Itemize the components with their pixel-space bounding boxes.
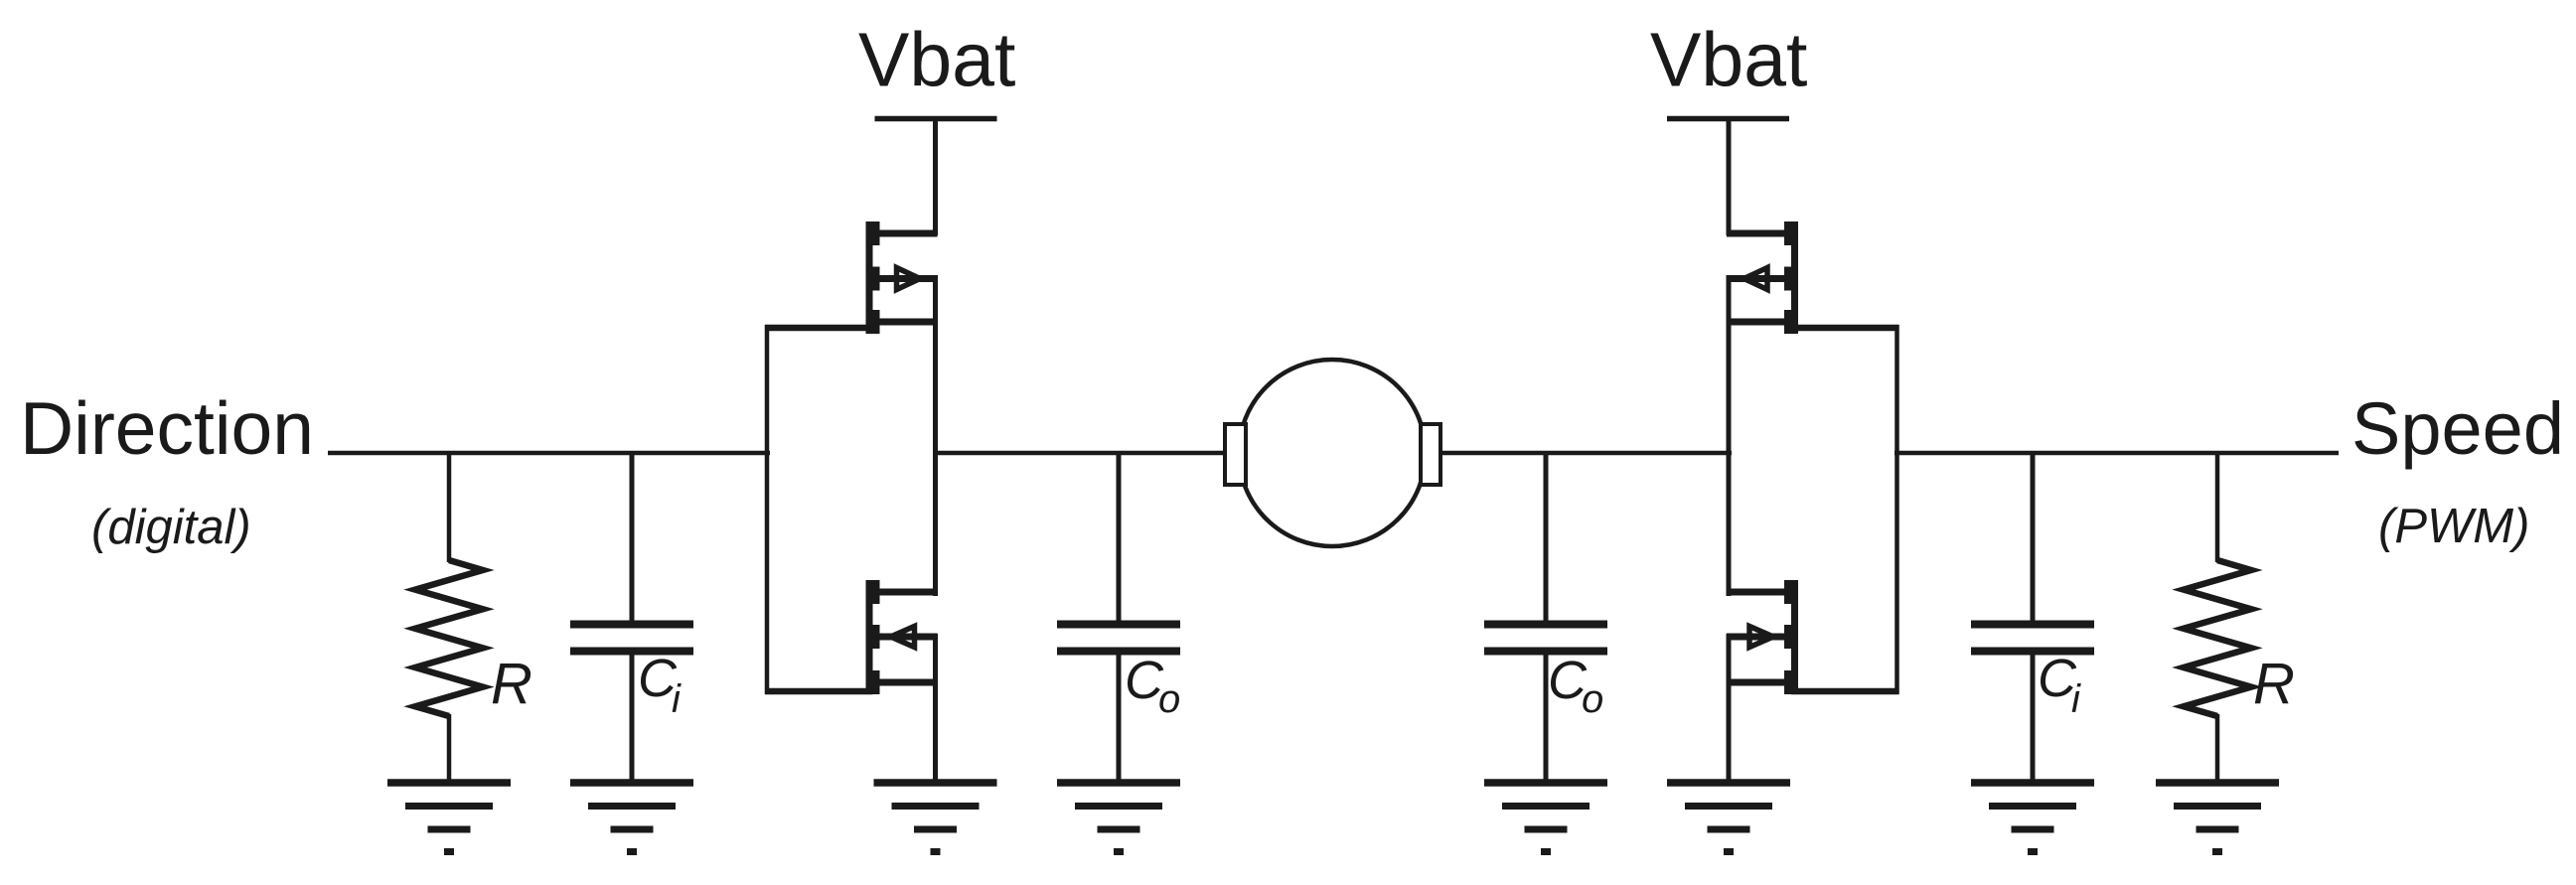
svg-text:i: i xyxy=(672,677,682,721)
svg-text:R: R xyxy=(2253,652,2295,716)
svg-text:(digital): (digital) xyxy=(91,501,251,554)
svg-text:Speed: Speed xyxy=(2351,387,2564,470)
svg-text:Vbat: Vbat xyxy=(1650,18,1807,103)
svg-text:Vbat: Vbat xyxy=(858,18,1015,103)
svg-text:i: i xyxy=(2071,677,2081,721)
svg-text:o: o xyxy=(1158,677,1180,721)
svg-text:Direction: Direction xyxy=(20,386,314,470)
svg-text:o: o xyxy=(1582,677,1603,721)
svg-text:(PWM): (PWM) xyxy=(2378,500,2529,553)
svg-text:R: R xyxy=(491,652,532,716)
